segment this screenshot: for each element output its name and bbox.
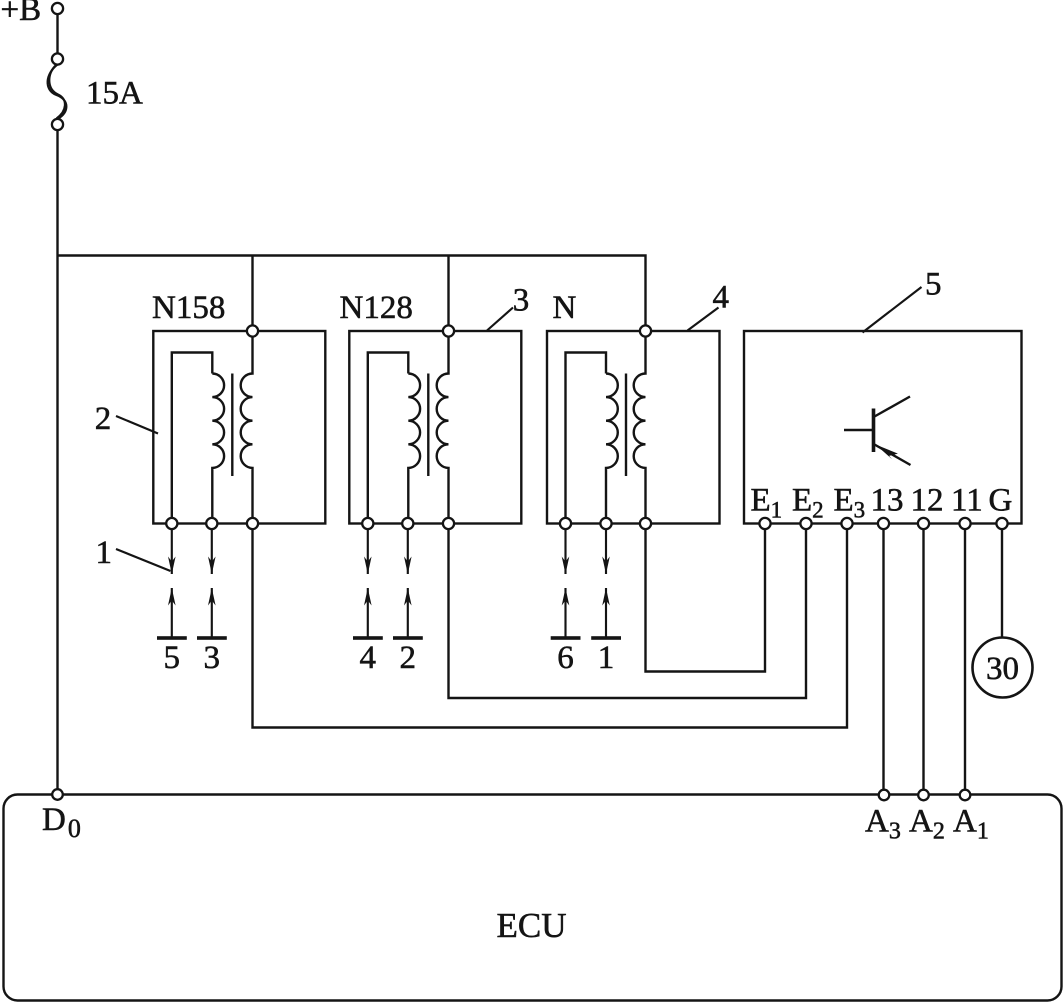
node N128 pin c [443,518,454,529]
svg-text:15A: 15A [86,76,143,112]
node A3 [865,790,901,845]
wire 13 to A3 [882,529,884,789]
node 11 [959,518,970,529]
svg-text:30: 30 [986,651,1019,687]
node N128 pin a [362,518,373,529]
node N128 top [443,325,454,336]
wire supply bus [58,256,646,332]
node N pin b [600,518,611,529]
spark plug gap 4 [353,529,383,676]
wire bus drop to N158 [251,256,253,332]
node A1 [953,790,989,845]
fuse F1 15A [48,53,143,130]
wire 11 to A1 [964,529,966,789]
wire bus drop to N128 [447,256,449,332]
svg-text:5: 5 [925,267,942,303]
terminal 30 [973,638,1033,698]
spark plug gap 3 [197,529,227,676]
node E2 [800,518,811,529]
callout 5 [863,267,942,333]
igniter unit 5 [744,331,1022,524]
node N158 pin a [166,518,177,529]
svg-text:1: 1 [96,535,113,571]
svg-text:1: 1 [598,640,615,676]
ECU block [4,795,1062,1001]
node D0 [42,789,81,843]
spark plug gap 1 [591,529,621,676]
callout 3 [487,283,529,331]
svg-text:2: 2 [400,640,417,676]
svg-text:N128: N128 [340,290,413,326]
svg-text:2: 2 [95,401,112,437]
svg-text:ECU: ECU [497,906,567,945]
svg-text:12: 12 [911,483,944,519]
svg-text:5: 5 [164,640,181,676]
node N128 pin b [402,518,413,529]
ignition coil N158 [152,290,325,524]
pin labels E1 E2 E3 13 12 11 G [751,483,1013,523]
node N158 pin c [247,518,258,529]
node N pin a [560,518,571,529]
wire +B to fuse [56,14,58,53]
svg-text:3: 3 [204,640,221,676]
spark plug gap 6 [551,529,581,676]
svg-text:+B: +B [1,0,42,28]
svg-text:G: G [989,483,1013,519]
ignition coil N128 [340,290,522,524]
spark plug gap 2 [393,529,423,676]
callout 4 [688,280,730,331]
wire 12 to A2 [922,529,924,789]
spark plug gap 5 [157,529,187,676]
node E1 [759,518,770,529]
wire N128 pin c to E2 [449,529,807,698]
svg-text:13: 13 [871,483,904,519]
callout 2 [95,401,158,437]
node G [996,518,1007,529]
node N158 top [247,325,258,336]
wire fuse to D0 [56,130,58,794]
node 12 [918,518,929,529]
svg-text:N158: N158 [152,290,225,326]
callout 1 [96,535,171,571]
wire N pin c to E1 [646,529,766,671]
node 13 [878,518,889,529]
ignition coil N [547,290,720,524]
node E3 [841,518,852,529]
svg-text:6: 6 [557,640,574,676]
wire G to terminal 30 [1001,529,1003,637]
node +B terminal [1,0,64,28]
svg-text:4: 4 [360,640,377,676]
transistor VT1 [844,397,911,466]
svg-text:11: 11 [951,483,983,519]
node N158 pin b [206,518,217,529]
node N pin c [640,518,651,529]
wire N158 pin c to E3 [253,529,848,727]
svg-text:N: N [553,290,577,326]
svg-text:3: 3 [513,283,530,319]
node A2 [909,790,945,845]
node N top [640,325,651,336]
